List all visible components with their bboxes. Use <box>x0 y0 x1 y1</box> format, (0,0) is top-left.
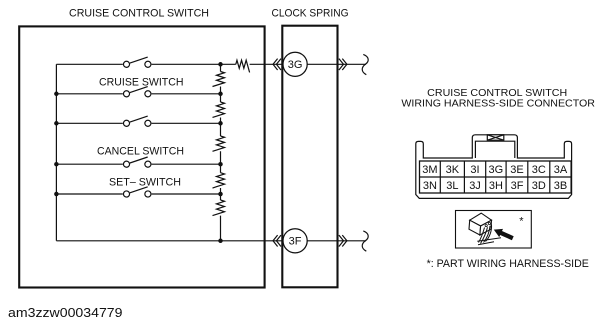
pin label 3M <box>422 164 437 176</box>
svg-text:3G: 3G <box>288 59 303 71</box>
wire break squiggle at 3F <box>362 231 368 251</box>
wire: 3F circle to harness break <box>307 240 366 242</box>
svg-text:*: PART WIRING HARNESS-SIDE: *: PART WIRING HARNESS-SIDE <box>427 258 589 270</box>
pin label 3B <box>554 180 567 192</box>
connector chevrons (out of clock spring) at 3G <box>339 59 347 70</box>
svg-text:3B: 3B <box>554 180 567 192</box>
svg-text:am3zzw00034779: am3zzw00034779 <box>8 306 123 320</box>
svg-text:3E: 3E <box>510 164 523 176</box>
label: *: PART WIRING HARNESS-SIDE <box>427 258 589 270</box>
switch SW2 contacts and blade <box>123 87 151 97</box>
pin label 3G <box>489 164 504 176</box>
switch SW3 contacts and blade <box>123 116 151 126</box>
wire: row 5 (SET- SWITCH) horizontal <box>56 193 220 195</box>
wire: 3G circle to harness break <box>307 63 366 65</box>
wire: right bus vertical segments <box>220 64 222 241</box>
junction dots on left bus <box>54 92 59 197</box>
switch SW1 contacts and blade <box>123 57 151 67</box>
svg-text:3I: 3I <box>470 164 479 176</box>
box: cruise control switch enclosure <box>19 26 264 287</box>
connector keying bowtie symbol <box>487 135 504 140</box>
pin label 3D <box>532 180 546 192</box>
label: figure id am3zzw00034779 <box>8 306 123 320</box>
svg-text:3G: 3G <box>489 164 504 176</box>
terminal circle 3G of clock spring <box>283 52 307 76</box>
wire: bottom row to 3F <box>56 240 283 242</box>
icon: wires from cube <box>477 225 501 245</box>
svg-text:3L: 3L <box>446 180 458 192</box>
svg-text:WIRING HARNESS-SIDE CONNECTOR: WIRING HARNESS-SIDE CONNECTOR <box>401 98 595 110</box>
wire: row 1 (top, to 3G) horizontal <box>56 63 220 65</box>
pin label 3K <box>446 164 460 176</box>
pin label 3E <box>510 164 523 176</box>
label: SET- SWITCH <box>109 176 181 188</box>
svg-text:CRUISE SWITCH: CRUISE SWITCH <box>99 76 184 88</box>
icon: black arrow pointing at cube <box>494 229 514 240</box>
wire: left bus vertical <box>55 64 57 241</box>
label: CRUISE CONTROL SWITCH / WIRING HARNESS-SIDE CONNECTOR heading <box>401 87 595 110</box>
label: CRUISE CONTROL SWITCH (title) <box>69 8 209 20</box>
resistor R5 (right bus, vertical) <box>213 200 225 216</box>
svg-text:CLOCK SPRING: CLOCK SPRING <box>272 8 349 20</box>
connector pin grid frame <box>420 161 572 193</box>
svg-text:3M: 3M <box>422 164 437 176</box>
pin label 3C <box>532 164 546 176</box>
wire: row 2 (CRUISE SWITCH) horizontal <box>56 93 220 95</box>
switch SW4 contacts and blade <box>123 157 151 167</box>
svg-text:3F: 3F <box>289 236 302 248</box>
svg-text:3D: 3D <box>532 180 546 192</box>
svg-text:CANCEL SWITCH: CANCEL SWITCH <box>97 145 184 157</box>
svg-text:CRUISE CONTROL SWITCH: CRUISE CONTROL SWITCH <box>69 8 209 20</box>
wire: row1 to horizontal resistor and on to 3G <box>221 63 284 65</box>
pin label 3A <box>554 164 568 176</box>
resistor R6 (top row, horizontal) <box>236 60 250 72</box>
connector chevrons (into clock spring) at 3F <box>273 235 281 246</box>
svg-text:3A: 3A <box>554 164 568 176</box>
svg-text:*: * <box>519 215 524 227</box>
icon: asterisk marker <box>519 215 524 227</box>
svg-text:3N: 3N <box>423 180 437 192</box>
box: clock spring enclosure <box>282 26 337 288</box>
pin label 3H <box>489 180 503 192</box>
pin label 3I <box>470 164 479 176</box>
pin label 3F <box>511 180 524 192</box>
pin label 3N <box>423 180 437 192</box>
svg-text:3H: 3H <box>489 180 503 192</box>
label: CLOCK SPRING (title) <box>272 8 349 20</box>
resistor R1 (right bus, vertical) <box>213 72 225 87</box>
label: CANCEL SWITCH <box>97 145 184 157</box>
wire: row 3 horizontal <box>56 122 220 124</box>
wire break squiggle at 3G <box>362 54 368 74</box>
pin label 3L <box>446 180 458 192</box>
icon: connector cube (isometric) <box>469 213 492 235</box>
connector shell outline (wiring harness-side connector) <box>416 135 572 199</box>
connector chevrons (into clock spring) at 3G <box>273 59 281 70</box>
pin label 3J <box>469 180 481 192</box>
svg-text:3F: 3F <box>511 180 524 192</box>
wire: row 4 (CANCEL SWITCH) horizontal <box>56 163 220 165</box>
resistor R4 (right bus, vertical) <box>213 173 225 188</box>
switch SW5 contacts and blade <box>123 187 151 197</box>
terminal circle 3F of clock spring <box>283 229 307 253</box>
resistor R3 (right bus, vertical) <box>213 136 225 151</box>
svg-text:3C: 3C <box>532 164 546 176</box>
label: CRUISE SWITCH <box>99 76 184 88</box>
icon box: part wiring harness-side pictograph frame <box>456 211 532 249</box>
connector tab inner wall lines <box>475 141 514 158</box>
resistor R2 (right bus, vertical) <box>213 102 225 117</box>
svg-text:SET– SWITCH: SET– SWITCH <box>109 176 181 188</box>
connector chevrons (out of clock spring) at 3F <box>339 235 347 246</box>
svg-text:3K: 3K <box>446 164 460 176</box>
svg-text:3J: 3J <box>469 180 481 192</box>
junction dots on right bus <box>218 62 223 243</box>
